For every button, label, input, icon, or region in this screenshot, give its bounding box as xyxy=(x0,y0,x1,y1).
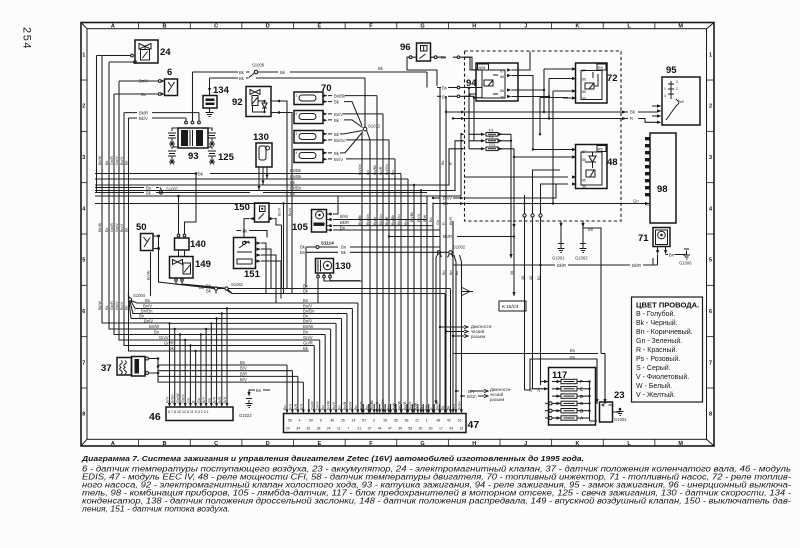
svg-text:85: 85 xyxy=(500,89,504,93)
svg-text:Bk/R: Bk/R xyxy=(436,402,440,410)
air flow meter 151 xyxy=(216,231,281,304)
svg-text:Bn/V: Bn/V xyxy=(334,157,343,162)
svg-text:Bn: Bn xyxy=(240,360,246,365)
svg-text:151: 151 xyxy=(244,269,261,280)
svg-text:S1004: S1004 xyxy=(133,293,146,298)
EDIS module connector 46 xyxy=(149,407,233,423)
svg-text:Gn/R: Gn/R xyxy=(303,341,313,346)
splice S1061 xyxy=(199,282,244,294)
svg-text:39: 39 xyxy=(398,427,402,431)
svg-text:Bn: Bn xyxy=(366,170,370,175)
svg-text:Bn/W: Bn/W xyxy=(147,270,151,280)
svg-text:48: 48 xyxy=(436,419,440,423)
svg-text:30: 30 xyxy=(500,96,504,100)
Bk/R wire to fuel pump xyxy=(453,221,658,268)
svg-text:B/V: B/V xyxy=(299,403,303,410)
svg-text:Bn/V: Bn/V xyxy=(120,301,124,310)
svg-text:47: 47 xyxy=(388,427,392,431)
mid horizontals from 105/S1114 xyxy=(95,196,650,231)
svg-text:Gn: Gn xyxy=(633,199,639,204)
idle air valve 92 xyxy=(246,87,292,294)
svg-text:G1022: G1022 xyxy=(239,413,252,418)
svg-text:B: B xyxy=(162,441,166,447)
svg-text:254: 254 xyxy=(21,27,33,50)
speed sensor 130 (top) xyxy=(256,143,272,191)
svg-text:Gn/V: Gn/V xyxy=(115,223,119,232)
svg-text:Gn/V: Gn/V xyxy=(316,401,320,410)
svg-text:G1001: G1001 xyxy=(552,256,565,261)
svg-text:6: 6 xyxy=(82,309,85,315)
svg-text:Bn: Bn xyxy=(669,253,675,258)
svg-text:37: 37 xyxy=(101,363,112,374)
svg-text:S1008: S1008 xyxy=(252,63,265,68)
svg-text:Bk: Bk xyxy=(125,160,129,165)
svg-text:Gn: Gn xyxy=(186,398,190,403)
svg-text:Bn/Bk: Bn/Bk xyxy=(334,94,346,99)
svg-text:6: 6 xyxy=(709,309,712,315)
svg-text:Bn: Bn xyxy=(442,94,448,99)
svg-text:8: 8 xyxy=(709,412,712,418)
lambda sensor 105 xyxy=(292,210,332,234)
svg-text:R: R xyxy=(449,162,453,165)
svg-text:Gn/V: Gn/V xyxy=(115,156,119,165)
svg-text:59: 59 xyxy=(405,419,409,423)
svg-text:Bn: Bn xyxy=(145,298,151,303)
svg-text:R: R xyxy=(630,116,633,121)
svg-text:H: H xyxy=(472,441,476,447)
left bundle labels xyxy=(98,156,129,310)
svg-text:G1002: G1002 xyxy=(575,256,588,261)
svg-text:134: 134 xyxy=(213,85,230,96)
svg-text:Bk: Bk xyxy=(125,305,129,310)
svg-text:58: 58 xyxy=(408,427,412,431)
svg-text:Gn - Зеленый.: Gn - Зеленый. xyxy=(636,337,682,345)
svg-text:87: 87 xyxy=(500,70,504,74)
bundle labels band 1 xyxy=(358,160,453,175)
svg-text:28: 28 xyxy=(317,427,321,431)
svg-text:K 16/C4: K 16/C4 xyxy=(502,304,519,309)
fuel injectors 70 (x4) xyxy=(294,83,395,163)
speed sensor 130 (bottom) xyxy=(316,259,363,303)
svg-text:B/Gn: B/Gn xyxy=(457,401,461,410)
svg-text:2: 2 xyxy=(709,104,712,110)
svg-text:2: 2 xyxy=(676,87,678,91)
svg-text:M: M xyxy=(678,441,683,447)
svg-text:V - Желтый.: V - Желтый. xyxy=(636,391,675,399)
ignition relay 94 xyxy=(465,52,569,205)
svg-text:B/Gn: B/Gn xyxy=(467,394,477,399)
svg-text:2: 2 xyxy=(296,112,298,116)
battery 23 xyxy=(595,354,627,423)
svg-text:B/V: B/V xyxy=(240,366,247,371)
svg-text:Bn/B: Bn/B xyxy=(403,401,407,410)
svg-text:1: 1 xyxy=(664,87,666,91)
svg-text:Bn/W: Bn/W xyxy=(149,324,159,329)
svg-text:21: 21 xyxy=(357,427,361,431)
svg-text:7: 7 xyxy=(347,427,349,431)
central vertical wire bundle xyxy=(362,88,453,405)
svg-text:G: G xyxy=(420,24,424,30)
svg-text:A: A xyxy=(111,441,115,447)
svg-text:Gn/V: Gn/V xyxy=(303,335,313,340)
svg-text:S1061: S1061 xyxy=(231,282,244,287)
svg-text:Bk/W: Bk/W xyxy=(98,156,102,165)
svg-text:Bn/V: Bn/V xyxy=(373,216,377,225)
pressure switch 150 xyxy=(234,202,282,238)
svg-text:Bk: Bk xyxy=(105,305,109,310)
svg-text:Gn: Gn xyxy=(207,398,211,403)
crank sensor 37 xyxy=(101,357,303,383)
svg-text:B/W: B/W xyxy=(340,214,348,219)
connector K 16/C4 xyxy=(499,221,526,311)
diagnostic connector lower xyxy=(455,255,512,402)
svg-text:Bn/R: Bn/R xyxy=(376,401,380,410)
svg-text:50: 50 xyxy=(309,419,313,423)
svg-text:D: D xyxy=(266,24,270,30)
svg-text:M: M xyxy=(678,24,683,30)
svg-text:W - Белый.: W - Белый. xyxy=(636,382,672,390)
splice S1007 xyxy=(95,186,427,196)
svg-text:A: A xyxy=(111,24,115,30)
svg-text:37: 37 xyxy=(368,427,372,431)
svg-text:S1002: S1002 xyxy=(453,245,466,250)
svg-text:85: 85 xyxy=(582,90,586,94)
svg-text:D: D xyxy=(266,441,270,447)
svg-text:Bn: Bn xyxy=(443,201,449,206)
horizontal bundle rows 173-191 xyxy=(95,133,465,196)
svg-text:17: 17 xyxy=(439,427,443,431)
svg-text:86: 86 xyxy=(582,78,586,82)
svg-text:E: E xyxy=(317,441,321,447)
svg-text:3: 3 xyxy=(664,94,666,98)
svg-text:24: 24 xyxy=(327,427,331,431)
svg-text:B/R: B/R xyxy=(294,403,298,410)
svg-text:ления, 151 - датчик потока воз: ления, 151 - датчик потока воздуха. xyxy=(81,505,230,514)
left wire bundle xyxy=(97,56,196,352)
svg-text:Bn: Bn xyxy=(283,405,287,410)
svg-text:Gn/R: Gn/R xyxy=(110,156,114,165)
svg-text:B1: B1 xyxy=(537,275,541,280)
svg-text:Bn: Bn xyxy=(441,55,447,60)
svg-text:H: H xyxy=(472,24,476,30)
fuse box 117 xyxy=(533,368,598,426)
svg-text:Bk/R: Bk/R xyxy=(139,111,148,116)
svg-text:Bn/R: Bn/R xyxy=(385,216,389,225)
svg-text:6: 6 xyxy=(167,67,172,78)
svg-text:Bn/B: Bn/B xyxy=(343,401,347,410)
fuses F3 F5 F23 xyxy=(465,87,569,259)
svg-text:R28: R28 xyxy=(479,66,486,70)
svg-text:Bn/V: Bn/V xyxy=(417,213,421,222)
svg-text:86: 86 xyxy=(500,75,504,79)
svg-text:30: 30 xyxy=(582,97,586,101)
intake air valve 149 xyxy=(159,257,225,289)
svg-text:11: 11 xyxy=(337,427,341,431)
svg-text:F23: F23 xyxy=(489,143,495,147)
svg-text:3: 3 xyxy=(373,419,375,423)
svg-text:0: 0 xyxy=(676,80,678,84)
svg-text:Bn/V: Bn/V xyxy=(443,196,452,201)
svg-text:149: 149 xyxy=(195,259,211,270)
EEC IV module connector 47 xyxy=(284,414,480,433)
svg-text:Bn: Bn xyxy=(365,405,369,410)
svg-text:19: 19 xyxy=(459,427,463,431)
svg-text:56: 56 xyxy=(288,419,292,423)
svg-text:5 7 8 10 12 6 11 9 4 2 3 1: 5 7 8 10 12 6 11 9 4 2 3 1 xyxy=(168,410,209,414)
svg-text:Gn: Gn xyxy=(436,220,440,225)
svg-text:B/V: B/V xyxy=(288,403,292,410)
svg-text:20: 20 xyxy=(286,427,290,431)
svg-text:Bk: Bk xyxy=(125,227,129,232)
svg-text:Bn: Bn xyxy=(429,217,433,222)
svg-text:30: 30 xyxy=(582,185,586,189)
svg-text:Bn: Bn xyxy=(341,245,347,250)
svg-text:44: 44 xyxy=(378,427,382,431)
condenser 140 xyxy=(175,172,206,256)
svg-text:85: 85 xyxy=(582,179,586,183)
svg-text:Bn/Bk: Bn/Bk xyxy=(370,400,374,410)
svg-text:26: 26 xyxy=(341,419,345,423)
svg-text:1: 1 xyxy=(296,94,298,98)
svg-text:98: 98 xyxy=(657,184,668,195)
svg-text:Gn/R: Gn/R xyxy=(110,223,114,232)
svg-text:V - Фиолетовый.: V - Фиолетовый. xyxy=(636,373,689,381)
svg-text:7: 7 xyxy=(82,360,85,366)
svg-text:87: 87 xyxy=(582,69,586,73)
spark plugs 125 xyxy=(168,128,216,165)
fuel pump relay 72 xyxy=(563,63,618,103)
svg-text:разъем: разъем xyxy=(490,397,504,402)
svg-text:Bn: Bn xyxy=(442,270,446,275)
svg-text:Bk/Bn: Bk/Bn xyxy=(290,186,302,191)
ignition switch 95 xyxy=(445,65,700,125)
svg-text:125: 125 xyxy=(218,152,235,163)
svg-text:Bn: Bn xyxy=(449,270,453,275)
svg-text:Gn/V: Gn/V xyxy=(115,301,119,310)
svg-text:B/W: B/W xyxy=(423,214,427,222)
svg-text:B/V: B/V xyxy=(223,396,227,403)
svg-text:42: 42 xyxy=(447,419,451,423)
svg-text:Диаграмма 7. Система зажигания: Диаграмма 7. Система зажигания и управле… xyxy=(81,454,584,463)
svg-text:Bn: Bn xyxy=(340,226,346,231)
solenoid valve 24 xyxy=(97,40,159,63)
svg-text:S1114: S1114 xyxy=(321,241,334,246)
dashed relay compartment box xyxy=(465,51,622,221)
svg-text:16: 16 xyxy=(306,427,310,431)
svg-text:Bn/V: Bn/V xyxy=(303,318,312,323)
svg-text:Bk: Bk xyxy=(441,405,445,410)
svg-text:34: 34 xyxy=(296,427,300,431)
svg-text:разъем: разъем xyxy=(471,334,485,339)
wire bundle merge fork xyxy=(462,288,473,296)
svg-text:93: 93 xyxy=(188,151,199,162)
connector pin risers, wire rows and pin labels for 46 / 47 / 117 xyxy=(131,284,591,431)
svg-text:Bn/V: Bn/V xyxy=(288,207,292,216)
svg-text:R6: R6 xyxy=(598,148,603,152)
svg-text:Bn/V: Bn/V xyxy=(348,401,352,410)
svg-text:3: 3 xyxy=(82,155,85,161)
svg-text:96: 96 xyxy=(400,42,411,53)
svg-text:Bn/W: Bn/W xyxy=(303,324,313,329)
svg-text:140: 140 xyxy=(190,239,206,250)
svg-text:B/V: B/V xyxy=(240,377,247,382)
svg-text:Bn: Bn xyxy=(256,388,262,393)
svg-text:8: 8 xyxy=(82,412,85,418)
svg-text:22: 22 xyxy=(415,419,419,423)
svg-text:G1006: G1006 xyxy=(679,261,692,266)
svg-text:Bn/V: Bn/V xyxy=(144,318,153,323)
svg-text:Bn/V: Bn/V xyxy=(332,401,336,410)
svg-text:30: 30 xyxy=(419,427,423,431)
svg-text:1: 1 xyxy=(82,52,85,58)
inertia switch 96 xyxy=(400,42,482,99)
svg-text:ЦВЕТ ПРОВОДА.: ЦВЕТ ПРОВОДА. xyxy=(636,301,699,310)
svg-text:48: 48 xyxy=(607,157,618,168)
power relay 48 xyxy=(560,145,618,190)
svg-text:Bk/R: Bk/R xyxy=(340,220,349,225)
svg-text:K: K xyxy=(575,441,579,447)
svg-text:Bn/Bk: Bn/Bk xyxy=(410,212,414,222)
svg-text:14: 14 xyxy=(352,419,356,423)
svg-text:46: 46 xyxy=(149,411,161,423)
svg-text:Gn/V: Gn/V xyxy=(159,335,169,340)
svg-text:Bk: Bk xyxy=(105,227,109,232)
grounds G1001 G1002 xyxy=(552,221,594,261)
svg-text:Bn/V: Bn/V xyxy=(408,401,412,410)
svg-text:K: K xyxy=(575,24,579,30)
svg-text:57: 57 xyxy=(362,419,366,423)
svg-text:35: 35 xyxy=(394,419,398,423)
svg-text:Bk - Черный.: Bk - Черный. xyxy=(636,319,678,327)
svg-text:G1004: G1004 xyxy=(614,417,627,422)
svg-text:Bn: Bn xyxy=(354,405,358,410)
svg-text:B/Gn: B/Gn xyxy=(171,394,175,403)
svg-text:R - Красный.: R - Красный. xyxy=(636,346,677,354)
svg-text:S1007: S1007 xyxy=(166,187,179,192)
svg-text:Bn/Gc: Bn/Gc xyxy=(334,138,346,143)
svg-text:Bk/R: Bk/R xyxy=(632,263,641,268)
svg-text:Bk/W: Bk/W xyxy=(98,301,102,310)
svg-text:Bn: Bn xyxy=(338,405,342,410)
svg-text:Bn: Bn xyxy=(404,220,408,225)
svg-text:B/V: B/V xyxy=(166,396,170,403)
svg-text:Bn/Bk: Bn/Bk xyxy=(290,168,302,173)
svg-text:16: 16 xyxy=(458,419,462,423)
svg-text:1: 1 xyxy=(709,52,712,58)
svg-text:38: 38 xyxy=(510,271,514,275)
svg-text:2: 2 xyxy=(82,104,85,110)
svg-text:Bn/G: Bn/G xyxy=(359,401,363,410)
svg-text:5: 5 xyxy=(82,258,85,264)
wires from injectors to S1012 and bundle xyxy=(328,96,377,126)
svg-text:130: 130 xyxy=(253,132,269,143)
svg-text:26: 26 xyxy=(383,419,387,423)
svg-text:9: 9 xyxy=(320,419,322,423)
svg-text:23: 23 xyxy=(614,390,625,401)
svg-text:Bk/V: Bk/V xyxy=(139,116,148,121)
svg-text:C: C xyxy=(214,441,218,447)
svg-text:Bn/V: Bn/V xyxy=(120,223,124,232)
svg-text:J: J xyxy=(524,24,527,30)
svg-text:43: 43 xyxy=(449,427,453,431)
svg-text:Gn/R: Gn/R xyxy=(310,401,314,410)
svg-text:S1012: S1012 xyxy=(368,124,381,129)
svg-text:92: 92 xyxy=(232,97,243,108)
svg-text:ЗиЛ: ЗиЛ xyxy=(678,100,684,104)
splice S1008 xyxy=(193,63,428,88)
svg-text:C: C xyxy=(214,24,218,30)
svg-text:130: 130 xyxy=(335,261,351,272)
svg-text:Bn: Bn xyxy=(303,330,309,335)
svg-text:Gn/W: Gn/W xyxy=(176,393,180,403)
ignition coil 93 xyxy=(124,72,208,148)
splice S1114 xyxy=(300,241,466,405)
svg-text:F3: F3 xyxy=(489,129,493,133)
svg-text:Gn/R: Gn/R xyxy=(110,301,114,310)
svg-text:36: 36 xyxy=(521,276,525,280)
svg-text:Bk: Bk xyxy=(105,160,109,165)
grid column letters top and bottom xyxy=(81,23,714,448)
svg-text:1: 1 xyxy=(426,419,428,423)
svg-text:71: 71 xyxy=(638,233,649,244)
svg-text:7: 7 xyxy=(709,360,712,366)
svg-text:Gn/V: Gn/V xyxy=(181,394,185,403)
svg-text:Bk: Bk xyxy=(441,160,445,165)
svg-text:F5: F5 xyxy=(489,135,493,139)
wires relays to bottom circles xyxy=(521,170,560,392)
svg-text:R: R xyxy=(442,222,446,225)
svg-text:Bn: Bn xyxy=(303,298,309,303)
svg-text:Bn: Bn xyxy=(300,250,306,255)
svg-text:B/R: B/R xyxy=(218,396,222,403)
ground G1022 xyxy=(239,388,270,418)
svg-text:87: 87 xyxy=(582,150,586,154)
splice S1004 xyxy=(128,293,146,319)
svg-text:Gn/R: Gn/R xyxy=(164,341,174,346)
svg-text:Bn: Bn xyxy=(570,348,576,353)
svg-text:47: 47 xyxy=(468,419,480,431)
svg-text:Bk/R: Bk/R xyxy=(449,217,453,225)
svg-text:B/V: B/V xyxy=(213,396,217,403)
svg-text:B: B xyxy=(162,24,166,30)
svg-text:Bk/R: Bk/R xyxy=(443,234,452,239)
svg-text:Bn/V: Bn/V xyxy=(278,207,282,216)
pressure switch 50 xyxy=(136,222,160,296)
svg-text:Bn: Bn xyxy=(442,86,448,91)
instrument cluster 98 xyxy=(645,133,676,223)
svg-text:50: 50 xyxy=(136,222,147,233)
bundle labels band 2 xyxy=(358,212,453,225)
svg-text:Gn: Gn xyxy=(197,398,201,403)
svg-text:24: 24 xyxy=(160,47,171,58)
svg-text:Bn/Bk: Bn/Bk xyxy=(290,174,302,179)
svg-text:105: 105 xyxy=(292,222,309,233)
svg-text:B/R: B/R xyxy=(240,371,247,376)
svg-text:Bn/V: Bn/V xyxy=(120,156,124,165)
svg-text:J: J xyxy=(524,441,527,447)
svg-text:R9: R9 xyxy=(598,66,603,70)
svg-text:Ps - Розовый.: Ps - Розовый. xyxy=(636,355,680,363)
svg-text:Bn: Bn xyxy=(154,330,160,335)
diagnostic connector upper xyxy=(439,324,493,339)
svg-text:4: 4 xyxy=(299,419,301,423)
svg-text:3: 3 xyxy=(296,132,298,136)
svg-text:3: 3 xyxy=(709,155,712,161)
svg-text:72: 72 xyxy=(607,73,618,84)
svg-text:Bk/R: Bk/R xyxy=(557,263,566,268)
svg-text:4: 4 xyxy=(296,151,298,155)
schematic outer frame xyxy=(81,23,714,447)
